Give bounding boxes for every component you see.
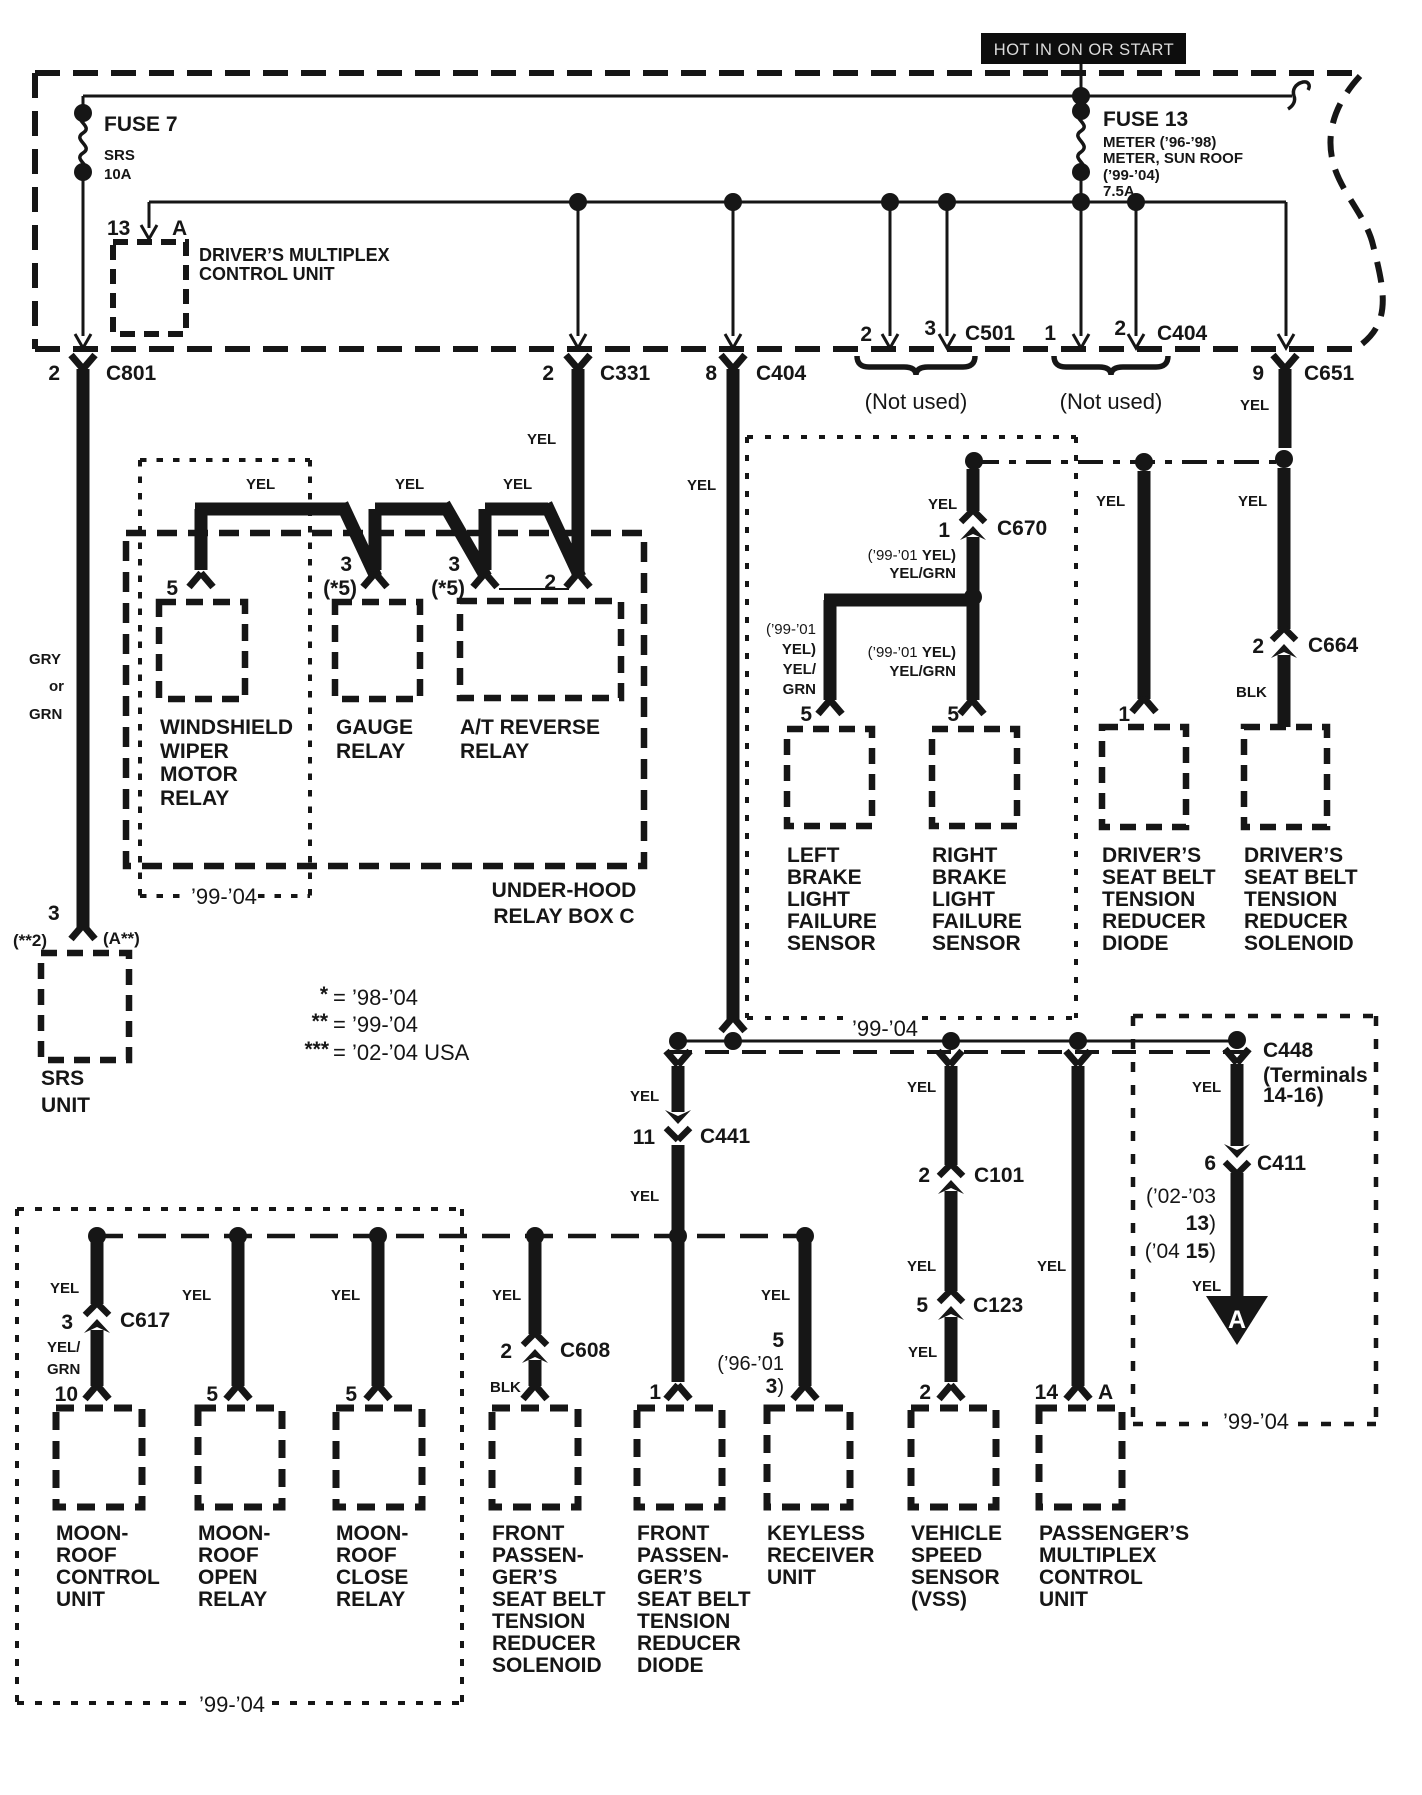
svg-text:YEL: YEL <box>331 1287 360 1304</box>
svg-text:YEL: YEL <box>761 1287 790 1304</box>
svg-text:1: 1 <box>1118 703 1130 726</box>
svg-text:YEL: YEL <box>908 1344 937 1361</box>
svg-text:2: 2 <box>918 1164 930 1187</box>
svg-text:C441: C441 <box>700 1125 751 1148</box>
svg-text:YEL: YEL <box>527 431 556 448</box>
svg-text:YEL/GRN: YEL/GRN <box>889 663 956 680</box>
svg-text:YEL: YEL <box>1192 1079 1221 1096</box>
svg-text:YEL: YEL <box>1096 493 1125 510</box>
svg-text:C670: C670 <box>997 517 1047 540</box>
svg-text:1: 1 <box>649 1381 661 1404</box>
svg-text:2: 2 <box>1114 317 1126 340</box>
svg-text:BLK: BLK <box>1236 684 1267 701</box>
svg-text:MOTOR: MOTOR <box>160 763 238 786</box>
svg-text:3: 3 <box>448 553 460 576</box>
svg-text:(VSS): (VSS) <box>911 1588 967 1611</box>
svg-text:DRIVER’S: DRIVER’S <box>1244 844 1343 867</box>
svg-text:DRIVER’S MULTIPLEX: DRIVER’S MULTIPLEX <box>199 245 390 265</box>
svg-text:SEAT BELT: SEAT BELT <box>1102 866 1216 889</box>
svg-text:FUSE 7: FUSE 7 <box>104 113 178 136</box>
svg-text:HOT IN ON OR START: HOT IN ON OR START <box>994 41 1174 59</box>
svg-text:= ’98-’04: = ’98-’04 <box>333 985 418 1010</box>
svg-text:YEL: YEL <box>182 1287 211 1304</box>
svg-text:7.5A: 7.5A <box>1103 183 1135 200</box>
svg-text:10: 10 <box>55 1383 78 1406</box>
svg-text:(’04 15): (’04 15) <box>1145 1240 1216 1263</box>
svg-text:5: 5 <box>916 1294 928 1317</box>
svg-text:***: *** <box>304 1038 329 1061</box>
svg-text:8: 8 <box>705 362 717 385</box>
svg-text:YEL: YEL <box>907 1258 936 1275</box>
svg-text:9: 9 <box>1252 362 1264 385</box>
svg-text:FUSE 13: FUSE 13 <box>1103 108 1188 131</box>
svg-text:UNIT: UNIT <box>41 1094 90 1117</box>
svg-text:C801: C801 <box>106 362 157 385</box>
svg-text:(’02-’03: (’02-’03 <box>1146 1185 1216 1208</box>
svg-text:*: * <box>320 983 329 1006</box>
svg-text:1: 1 <box>1044 322 1056 345</box>
svg-text:SOLENOID: SOLENOID <box>492 1654 602 1677</box>
svg-text:YEL: YEL <box>1238 493 1267 510</box>
svg-text:’99-’04: ’99-’04 <box>199 1692 265 1717</box>
svg-text:11: 11 <box>633 1126 656 1149</box>
svg-text:(’99-’01 YEL): (’99-’01 YEL) <box>868 547 956 564</box>
svg-text:YEL/GRN: YEL/GRN <box>889 565 956 582</box>
svg-text:METER, SUN ROOF: METER, SUN ROOF <box>1103 150 1243 167</box>
svg-text:’99-’04: ’99-’04 <box>1223 1409 1289 1434</box>
svg-text:5: 5 <box>166 577 178 600</box>
svg-text:YEL: YEL <box>1037 1258 1066 1275</box>
svg-text:GRY: GRY <box>29 651 61 668</box>
svg-text:YEL: YEL <box>630 1188 659 1205</box>
svg-text:C404: C404 <box>1157 322 1208 345</box>
svg-text:CLOSE: CLOSE <box>336 1566 408 1589</box>
svg-text:A: A <box>1228 1306 1246 1334</box>
svg-text:REDUCER: REDUCER <box>1244 910 1348 933</box>
svg-text:SENSOR: SENSOR <box>787 932 876 955</box>
svg-text:MULTIPLEX: MULTIPLEX <box>1039 1544 1156 1567</box>
svg-text:RIGHT: RIGHT <box>932 844 998 867</box>
svg-text:RELAY: RELAY <box>336 740 405 763</box>
svg-text:YEL: YEL <box>1192 1278 1221 1295</box>
svg-text:YEL: YEL <box>246 476 275 493</box>
svg-text:(’99-’01: (’99-’01 <box>766 621 816 638</box>
svg-text:A: A <box>1098 1381 1113 1404</box>
svg-text:UNIT: UNIT <box>767 1566 816 1589</box>
svg-text:C411: C411 <box>1257 1152 1306 1175</box>
svg-text:YEL/: YEL/ <box>47 1339 81 1356</box>
svg-text:2: 2 <box>500 1340 512 1363</box>
svg-text:SRS: SRS <box>104 147 135 164</box>
svg-text:3: 3 <box>48 902 60 925</box>
svg-text:WIPER: WIPER <box>160 740 229 763</box>
svg-text:KEYLESS: KEYLESS <box>767 1522 865 1545</box>
svg-text:RECEIVER: RECEIVER <box>767 1544 874 1567</box>
svg-text:1: 1 <box>938 519 950 542</box>
svg-text:PASSEN-: PASSEN- <box>492 1544 584 1567</box>
svg-text:LIGHT: LIGHT <box>787 888 850 911</box>
svg-text:WINDSHIELD: WINDSHIELD <box>160 716 293 739</box>
svg-text:YEL: YEL <box>1240 397 1269 414</box>
svg-text:GAUGE: GAUGE <box>336 716 413 739</box>
svg-text:14: 14 <box>1035 1381 1059 1404</box>
svg-text:UNIT: UNIT <box>1039 1588 1088 1611</box>
svg-text:TENSION: TENSION <box>1102 888 1195 911</box>
svg-text:(Not used): (Not used) <box>1060 389 1163 414</box>
svg-text:VEHICLE: VEHICLE <box>911 1522 1002 1545</box>
svg-text:YEL: YEL <box>503 476 532 493</box>
svg-text:SRS: SRS <box>41 1067 84 1090</box>
svg-text:C404: C404 <box>756 362 807 385</box>
svg-text:13): 13) <box>1186 1212 1216 1235</box>
svg-text:GER’S: GER’S <box>637 1566 702 1589</box>
svg-text:C101: C101 <box>974 1164 1025 1187</box>
svg-text:RELAY BOX C: RELAY BOX C <box>493 905 634 928</box>
svg-text:2: 2 <box>1252 635 1264 658</box>
svg-text:ROOF: ROOF <box>198 1544 259 1567</box>
svg-text:UNDER-HOOD: UNDER-HOOD <box>492 879 637 902</box>
svg-text:13: 13 <box>107 217 130 240</box>
svg-text:BRAKE: BRAKE <box>787 866 862 889</box>
svg-text:(A**): (A**) <box>103 929 140 948</box>
svg-text:(*5): (*5) <box>323 577 357 600</box>
svg-text:YEL: YEL <box>630 1088 659 1105</box>
svg-text:5: 5 <box>345 1383 357 1406</box>
svg-text:CONTROL: CONTROL <box>1039 1566 1143 1589</box>
svg-text:’99-’04: ’99-’04 <box>191 884 257 909</box>
svg-text:**: ** <box>312 1010 329 1033</box>
svg-text:FRONT: FRONT <box>492 1522 564 1545</box>
svg-text:C664: C664 <box>1308 634 1359 657</box>
svg-text:A: A <box>172 217 187 240</box>
svg-text:YEL: YEL <box>687 477 716 494</box>
svg-text:BLK: BLK <box>490 1379 521 1396</box>
svg-text:RELAY: RELAY <box>460 740 529 763</box>
svg-text:PASSEN-: PASSEN- <box>637 1544 729 1567</box>
svg-text:YEL: YEL <box>492 1287 521 1304</box>
svg-text:C331: C331 <box>600 362 651 385</box>
svg-text:FAILURE: FAILURE <box>787 910 877 933</box>
svg-text:2: 2 <box>919 1381 931 1404</box>
svg-text:REDUCER: REDUCER <box>637 1632 741 1655</box>
svg-text:(’99-’04): (’99-’04) <box>1103 167 1160 184</box>
svg-text:6: 6 <box>1204 1152 1216 1175</box>
svg-text:C501: C501 <box>965 322 1016 345</box>
svg-text:GRN: GRN <box>29 706 62 723</box>
svg-text:ROOF: ROOF <box>56 1544 117 1567</box>
svg-text:C608: C608 <box>560 1339 611 1362</box>
svg-text:GRN: GRN <box>783 681 816 698</box>
svg-text:YEL): YEL) <box>782 641 816 658</box>
svg-text:SENSOR: SENSOR <box>932 932 1021 955</box>
svg-text:3: 3 <box>61 1311 73 1334</box>
svg-text:SEAT BELT: SEAT BELT <box>1244 866 1358 889</box>
svg-text:MOON-: MOON- <box>198 1522 270 1545</box>
svg-text:SEAT BELT: SEAT BELT <box>637 1588 751 1611</box>
svg-text:REDUCER: REDUCER <box>492 1632 596 1655</box>
svg-text:LIGHT: LIGHT <box>932 888 995 911</box>
svg-text:C651: C651 <box>1304 362 1355 385</box>
svg-text:= ’02-’04 USA: = ’02-’04 USA <box>333 1040 470 1065</box>
svg-text:TENSION: TENSION <box>637 1610 730 1633</box>
svg-text:2: 2 <box>544 571 556 594</box>
svg-text:SENSOR: SENSOR <box>911 1566 1000 1589</box>
svg-text:RELAY: RELAY <box>160 787 229 810</box>
svg-text:C448: C448 <box>1263 1039 1314 1062</box>
svg-text:METER (’96-’98): METER (’96-’98) <box>1103 134 1216 151</box>
svg-text:3: 3 <box>340 553 352 576</box>
svg-text:’99-’04: ’99-’04 <box>852 1016 918 1041</box>
svg-text:PASSENGER’S: PASSENGER’S <box>1039 1522 1189 1545</box>
svg-text:C617: C617 <box>120 1309 170 1332</box>
svg-text:MOON-: MOON- <box>56 1522 128 1545</box>
svg-text:FAILURE: FAILURE <box>932 910 1022 933</box>
svg-text:CONTROL: CONTROL <box>56 1566 160 1589</box>
svg-text:GRN: GRN <box>47 1361 80 1378</box>
svg-text:2: 2 <box>860 323 872 346</box>
svg-text:2: 2 <box>48 362 60 385</box>
svg-text:10A: 10A <box>104 166 132 183</box>
svg-text:C123: C123 <box>973 1294 1023 1317</box>
svg-text:YEL: YEL <box>395 476 424 493</box>
svg-text:TENSION: TENSION <box>1244 888 1337 911</box>
svg-text:LEFT: LEFT <box>787 844 840 867</box>
svg-text:YEL/: YEL/ <box>783 661 817 678</box>
svg-text:YEL: YEL <box>50 1280 79 1297</box>
svg-text:DRIVER’S: DRIVER’S <box>1102 844 1201 867</box>
svg-text:SOLENOID: SOLENOID <box>1244 932 1354 955</box>
svg-text:RELAY: RELAY <box>336 1588 405 1611</box>
svg-text:SEAT BELT: SEAT BELT <box>492 1588 606 1611</box>
svg-text:(*5): (*5) <box>431 577 465 600</box>
svg-text:SPEED: SPEED <box>911 1544 982 1567</box>
svg-text:= ’99-’04: = ’99-’04 <box>333 1012 418 1037</box>
svg-text:RELAY: RELAY <box>198 1588 267 1611</box>
svg-text:UNIT: UNIT <box>56 1588 105 1611</box>
svg-text:14-16): 14-16) <box>1263 1084 1324 1107</box>
svg-text:(’96-’01: (’96-’01 <box>717 1353 784 1375</box>
svg-text:or: or <box>49 678 64 695</box>
svg-text:YEL: YEL <box>907 1079 936 1096</box>
svg-text:MOON-: MOON- <box>336 1522 408 1545</box>
svg-text:BRAKE: BRAKE <box>932 866 1007 889</box>
svg-text:(Not used): (Not used) <box>865 389 968 414</box>
svg-text:DIODE: DIODE <box>1102 932 1169 955</box>
svg-text:CONTROL UNIT: CONTROL UNIT <box>199 264 335 284</box>
svg-text:5: 5 <box>800 703 812 726</box>
svg-text:A/T REVERSE: A/T REVERSE <box>460 716 600 739</box>
svg-text:3: 3 <box>924 317 936 340</box>
svg-text:GER’S: GER’S <box>492 1566 557 1589</box>
svg-text:5: 5 <box>947 703 959 726</box>
svg-text:(**2): (**2) <box>13 931 47 950</box>
svg-text:OPEN: OPEN <box>198 1566 258 1589</box>
svg-text:(’99-’01 YEL): (’99-’01 YEL) <box>868 644 956 661</box>
svg-text:5: 5 <box>206 1383 218 1406</box>
svg-text:ROOF: ROOF <box>336 1544 397 1567</box>
svg-text:5: 5 <box>772 1329 784 1352</box>
svg-text:REDUCER: REDUCER <box>1102 910 1206 933</box>
svg-text:YEL: YEL <box>928 496 957 513</box>
svg-text:FRONT: FRONT <box>637 1522 709 1545</box>
svg-text:TENSION: TENSION <box>492 1610 585 1633</box>
svg-text:2: 2 <box>542 362 554 385</box>
svg-text:DIODE: DIODE <box>637 1654 704 1677</box>
svg-text:3): 3) <box>766 1375 784 1398</box>
